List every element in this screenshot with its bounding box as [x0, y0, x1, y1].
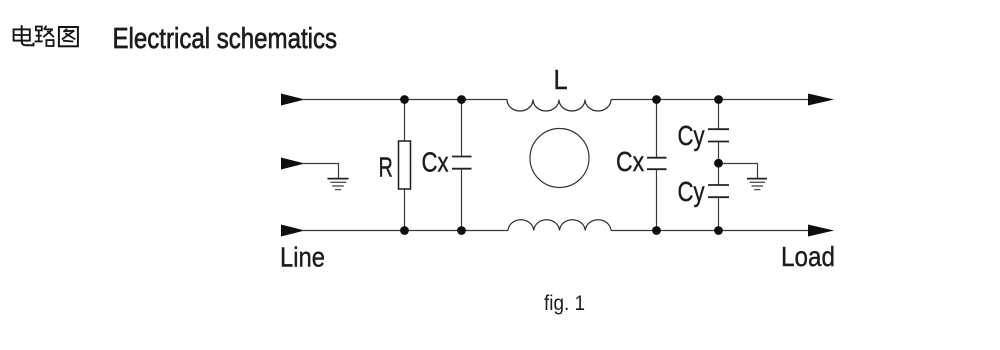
node dot Cx2 bottom	[652, 226, 661, 235]
capacitor Cx1 wire bottom	[461, 169, 463, 231]
inductor L top winding	[507, 100, 611, 112]
ground symbol left	[328, 179, 349, 190]
title hanzi 电 (drawn strokes)	[14, 25, 34, 45]
wire top rail left	[302, 99, 507, 101]
capacitor Cx2 plates	[647, 158, 667, 170]
inductor L bottom winding	[508, 220, 611, 231]
capacitor Cx1 plates	[452, 157, 472, 169]
svg-text:fig. 1: fig. 1	[544, 292, 585, 315]
arrow line-in bottom	[281, 225, 305, 237]
arrow line-in top	[281, 94, 305, 106]
ground symbol right	[747, 179, 767, 190]
title hanzi 图 (drawn strokes)	[59, 27, 78, 46]
arrow load-out bottom	[808, 225, 834, 237]
svg-text:R: R	[379, 152, 393, 183]
resistor R vertical wire	[404, 100, 406, 231]
svg-text:Cy: Cy	[678, 121, 705, 152]
svg-text:Electrical schematics: Electrical schematics	[113, 22, 338, 55]
svg-text:Load: Load	[781, 240, 835, 272]
resistor R body	[399, 141, 411, 189]
node dot R bottom	[400, 226, 409, 235]
capacitor Cx2 wire top	[656, 100, 658, 158]
node dot R top	[400, 95, 409, 104]
wire ground stub left	[302, 164, 339, 179]
choke core circle	[530, 129, 589, 188]
node dot Cx1 top	[457, 95, 466, 104]
svg-text:L: L	[554, 64, 568, 96]
node dot Cx1 bottom	[457, 226, 466, 235]
wire Cy middle	[718, 142, 720, 186]
svg-text:Cy: Cy	[678, 177, 705, 208]
node dot Cy middle	[714, 159, 723, 168]
capacitor Cy1 plates	[708, 129, 729, 141]
capacitor Cy2 plates	[708, 185, 729, 197]
node dot Cy top	[714, 95, 723, 104]
node dot Cx2 top	[652, 95, 661, 104]
wire bottom rail right	[611, 230, 810, 232]
arrow line-in middle	[281, 158, 305, 170]
node dot Cy bottom	[714, 226, 723, 235]
title hanzi 路 (drawn strokes)	[35, 26, 54, 46]
capacitor Cy2 wire bottom	[718, 197, 720, 230]
wire top rail right	[611, 99, 810, 101]
svg-text:Line: Line	[280, 241, 325, 273]
wire bottom rail left	[302, 230, 508, 232]
wire ground stub right	[719, 164, 758, 179]
svg-text:Cx: Cx	[422, 147, 449, 178]
svg-text:Cx: Cx	[616, 147, 644, 178]
capacitor Cx2 wire bottom	[656, 169, 658, 230]
arrow load-out top	[808, 94, 834, 106]
capacitor Cx1 wire top	[461, 100, 463, 157]
capacitor Cy1 wire top	[718, 100, 720, 130]
